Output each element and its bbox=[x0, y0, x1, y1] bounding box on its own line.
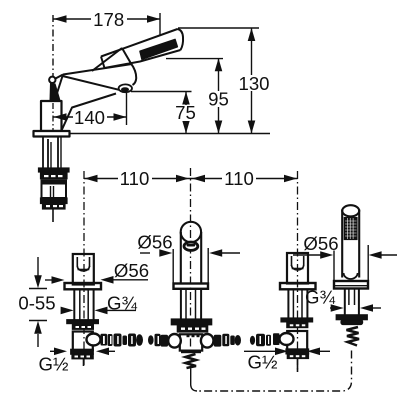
dim 110 right-right arrow bbox=[284, 175, 297, 183]
dim 140 line bbox=[54, 116, 127, 118]
spout outlet bbox=[184, 242, 198, 250]
svg-text:G¾: G¾ bbox=[107, 292, 137, 313]
O56 shower ext left bbox=[333, 251, 335, 282]
bottom nut bbox=[286, 349, 309, 354]
spout flange bbox=[174, 284, 209, 289]
svg-text:Ø56: Ø56 bbox=[137, 231, 172, 252]
G1/2 arrows bbox=[50, 350, 56, 352]
dim 95 top arrow bbox=[215, 58, 223, 71]
body block bbox=[73, 332, 93, 351]
dim 110 right-left arrow bbox=[192, 175, 205, 183]
ext line 75 top bbox=[131, 91, 192, 93]
shower tube bbox=[344, 289, 346, 315]
G1/2 arrows right valve bbox=[244, 350, 275, 352]
body near crease bbox=[63, 76, 122, 90]
svg-text:0-55: 0-55 bbox=[18, 293, 55, 314]
dim 75 text bbox=[175, 105, 196, 121]
aerator inner bbox=[121, 87, 129, 92]
dim 140 right arrow bbox=[114, 113, 127, 121]
handle sides bbox=[341, 210, 343, 278]
body underside bbox=[62, 94, 117, 131]
hose segments left bbox=[108, 334, 113, 346]
ext line 130 top bbox=[178, 27, 259, 29]
T-block left nut bbox=[161, 335, 169, 347]
dim 130 text bbox=[240, 75, 269, 91]
valve tube bbox=[73, 289, 75, 319]
dim 178 left arrow bbox=[54, 15, 67, 23]
cartridge centerline bbox=[52, 103, 54, 130]
dim 75 top arrow bbox=[182, 92, 190, 105]
port ring bbox=[280, 333, 294, 345]
base flange bbox=[34, 131, 70, 137]
svg-text:110: 110 bbox=[224, 168, 254, 189]
centerline left valve bbox=[83, 171, 85, 366]
shower grip hatch strip bbox=[140, 40, 177, 60]
svg-text:140: 140 bbox=[74, 107, 105, 128]
O56 spout ext right bbox=[207, 248, 209, 284]
svg-text:178: 178 bbox=[93, 9, 124, 30]
lever knob bbox=[49, 77, 55, 83]
dim 75 line bbox=[185, 92, 187, 134]
spout slotted nut bbox=[177, 326, 207, 332]
spout top circle bbox=[181, 222, 201, 242]
shower top edge bbox=[101, 29, 178, 57]
centerline stub bbox=[83, 359, 85, 366]
ext line spout tip bbox=[159, 13, 161, 35]
O56 spout right arrow bbox=[209, 249, 222, 257]
ext line 95 top bbox=[166, 58, 223, 60]
dim 178 line bbox=[53, 18, 160, 20]
dim 110 left-right arrow bbox=[176, 175, 189, 183]
port connector bbox=[101, 334, 108, 346]
centerline right valve bbox=[297, 171, 299, 372]
washer bbox=[67, 320, 99, 324]
handle recess arc bbox=[292, 265, 304, 270]
dim 110 left-left arrow bbox=[85, 175, 98, 183]
shank thin bar bbox=[41, 180, 67, 184]
shank lower bar bbox=[41, 198, 68, 204]
port ring bbox=[87, 334, 101, 346]
dim 110 left text bbox=[118, 170, 152, 186]
0-55 down arrow bbox=[34, 275, 42, 288]
0-55 upper tick bbox=[29, 288, 47, 290]
O56 shower right arrow bbox=[369, 251, 382, 259]
center hose drop bbox=[191, 369, 197, 392]
handle top cap bbox=[342, 205, 359, 216]
centerline spout bbox=[190, 168, 192, 350]
handle recess lines bbox=[76, 257, 78, 267]
dim 110 right text bbox=[222, 170, 256, 186]
dim 140 text bbox=[73, 109, 107, 125]
O56 spout ext left bbox=[172, 249, 174, 284]
svg-text:130: 130 bbox=[238, 73, 269, 94]
dim 140 left arrow bbox=[54, 113, 67, 121]
shower bottom edge bbox=[105, 50, 181, 68]
svg-text:Ø56: Ø56 bbox=[114, 260, 149, 281]
bottom nut bbox=[71, 349, 94, 354]
valve tube bbox=[287, 289, 289, 318]
dim 178 text bbox=[91, 11, 127, 27]
lever stem bbox=[50, 83, 61, 101]
dim 130 bottom arrow bbox=[248, 121, 256, 134]
handle rect bbox=[73, 254, 94, 285]
dim 95 text bbox=[208, 91, 229, 107]
svg-text:G¾: G¾ bbox=[305, 286, 335, 307]
shank tube bbox=[42, 137, 44, 169]
handle rect bbox=[287, 253, 308, 284]
0-55 lower line bbox=[37, 334, 39, 347]
0-55 lower tick bbox=[29, 320, 47, 322]
lever to body line bbox=[56, 75, 64, 79]
svg-text:G½: G½ bbox=[39, 354, 69, 375]
O56 spout left arrow bbox=[140, 252, 150, 254]
deck line bbox=[69, 133, 270, 135]
O56 shower ext right bbox=[367, 245, 369, 281]
shower washer bbox=[336, 315, 367, 320]
shower hose centerline path bbox=[197, 351, 352, 392]
shank lower slotted bbox=[43, 204, 66, 210]
slotted nut bbox=[72, 325, 93, 330]
T-block left port ring bbox=[168, 334, 181, 348]
centerline lever axis bbox=[52, 15, 54, 76]
T-block right port ring bbox=[201, 334, 214, 348]
aerator outer bbox=[119, 84, 132, 92]
shank centerline stub bbox=[52, 209, 54, 222]
T-block bbox=[180, 334, 202, 350]
shank washer bbox=[39, 168, 70, 172]
body right edge to tip bbox=[122, 48, 136, 85]
dim 110 right line bbox=[191, 178, 298, 180]
spout lower tube bbox=[180, 289, 182, 319]
handle recess lines bbox=[291, 256, 293, 266]
port connector bbox=[273, 333, 280, 345]
dim 130 top arrow bbox=[248, 28, 256, 41]
G3/4 arrows bbox=[62, 309, 65, 311]
slotted nut bbox=[287, 323, 308, 328]
dim 178 right arrow bbox=[147, 15, 160, 23]
svg-text:75: 75 bbox=[175, 102, 196, 123]
hose segments right bbox=[222, 334, 229, 347]
dim 110 left line bbox=[84, 178, 191, 180]
handle bottom arc bbox=[344, 273, 358, 279]
shower escutcheon bbox=[334, 281, 368, 289]
svg-text:110: 110 bbox=[120, 168, 150, 189]
svg-text:95: 95 bbox=[208, 88, 229, 109]
O56 shower left arrow bbox=[293, 254, 321, 256]
shank nut body bbox=[42, 184, 67, 199]
T-block right nut bbox=[214, 335, 222, 347]
escutcheon flange bbox=[65, 283, 102, 289]
dim 95 line bbox=[218, 58, 220, 133]
dim 95 bottom arrow bbox=[215, 121, 223, 134]
escutcheon flange bbox=[280, 283, 316, 289]
washer bbox=[281, 318, 313, 322]
bottom slotted nut bbox=[72, 354, 93, 359]
svg-text:G½: G½ bbox=[248, 351, 278, 372]
shower tail cap bbox=[101, 57, 105, 69]
spray face band bbox=[344, 218, 357, 240]
O56 left arrow bbox=[45, 279, 52, 281]
centerline stub bbox=[297, 359, 299, 373]
dim 130 line bbox=[251, 28, 253, 134]
dim 75 bottom arrow bbox=[182, 121, 190, 134]
ext line aerator axis bbox=[126, 93, 128, 125]
body block bbox=[287, 331, 307, 350]
0-55 upper line bbox=[37, 257, 39, 276]
spout tube sides bbox=[180, 232, 182, 284]
0-55 up arrow bbox=[34, 321, 42, 334]
G3/4 arrows shower bbox=[330, 307, 332, 309]
spout washer bbox=[171, 319, 211, 325]
shower coil bbox=[347, 327, 360, 346]
bottom slotted nut bbox=[287, 354, 308, 359]
center coil bbox=[186, 354, 197, 368]
O56 right arrow bbox=[101, 276, 114, 284]
body left edge bbox=[55, 75, 64, 102]
handle recess arc bbox=[77, 266, 89, 271]
shower head cap bbox=[178, 29, 184, 50]
T-block bottom bar bbox=[181, 350, 201, 353]
shank slotted nut bbox=[41, 173, 68, 179]
body cradle left edge bbox=[92, 48, 122, 71]
body far top edge bbox=[63, 64, 132, 75]
shower nut bbox=[341, 320, 363, 325]
cartridge housing bbox=[41, 101, 62, 131]
